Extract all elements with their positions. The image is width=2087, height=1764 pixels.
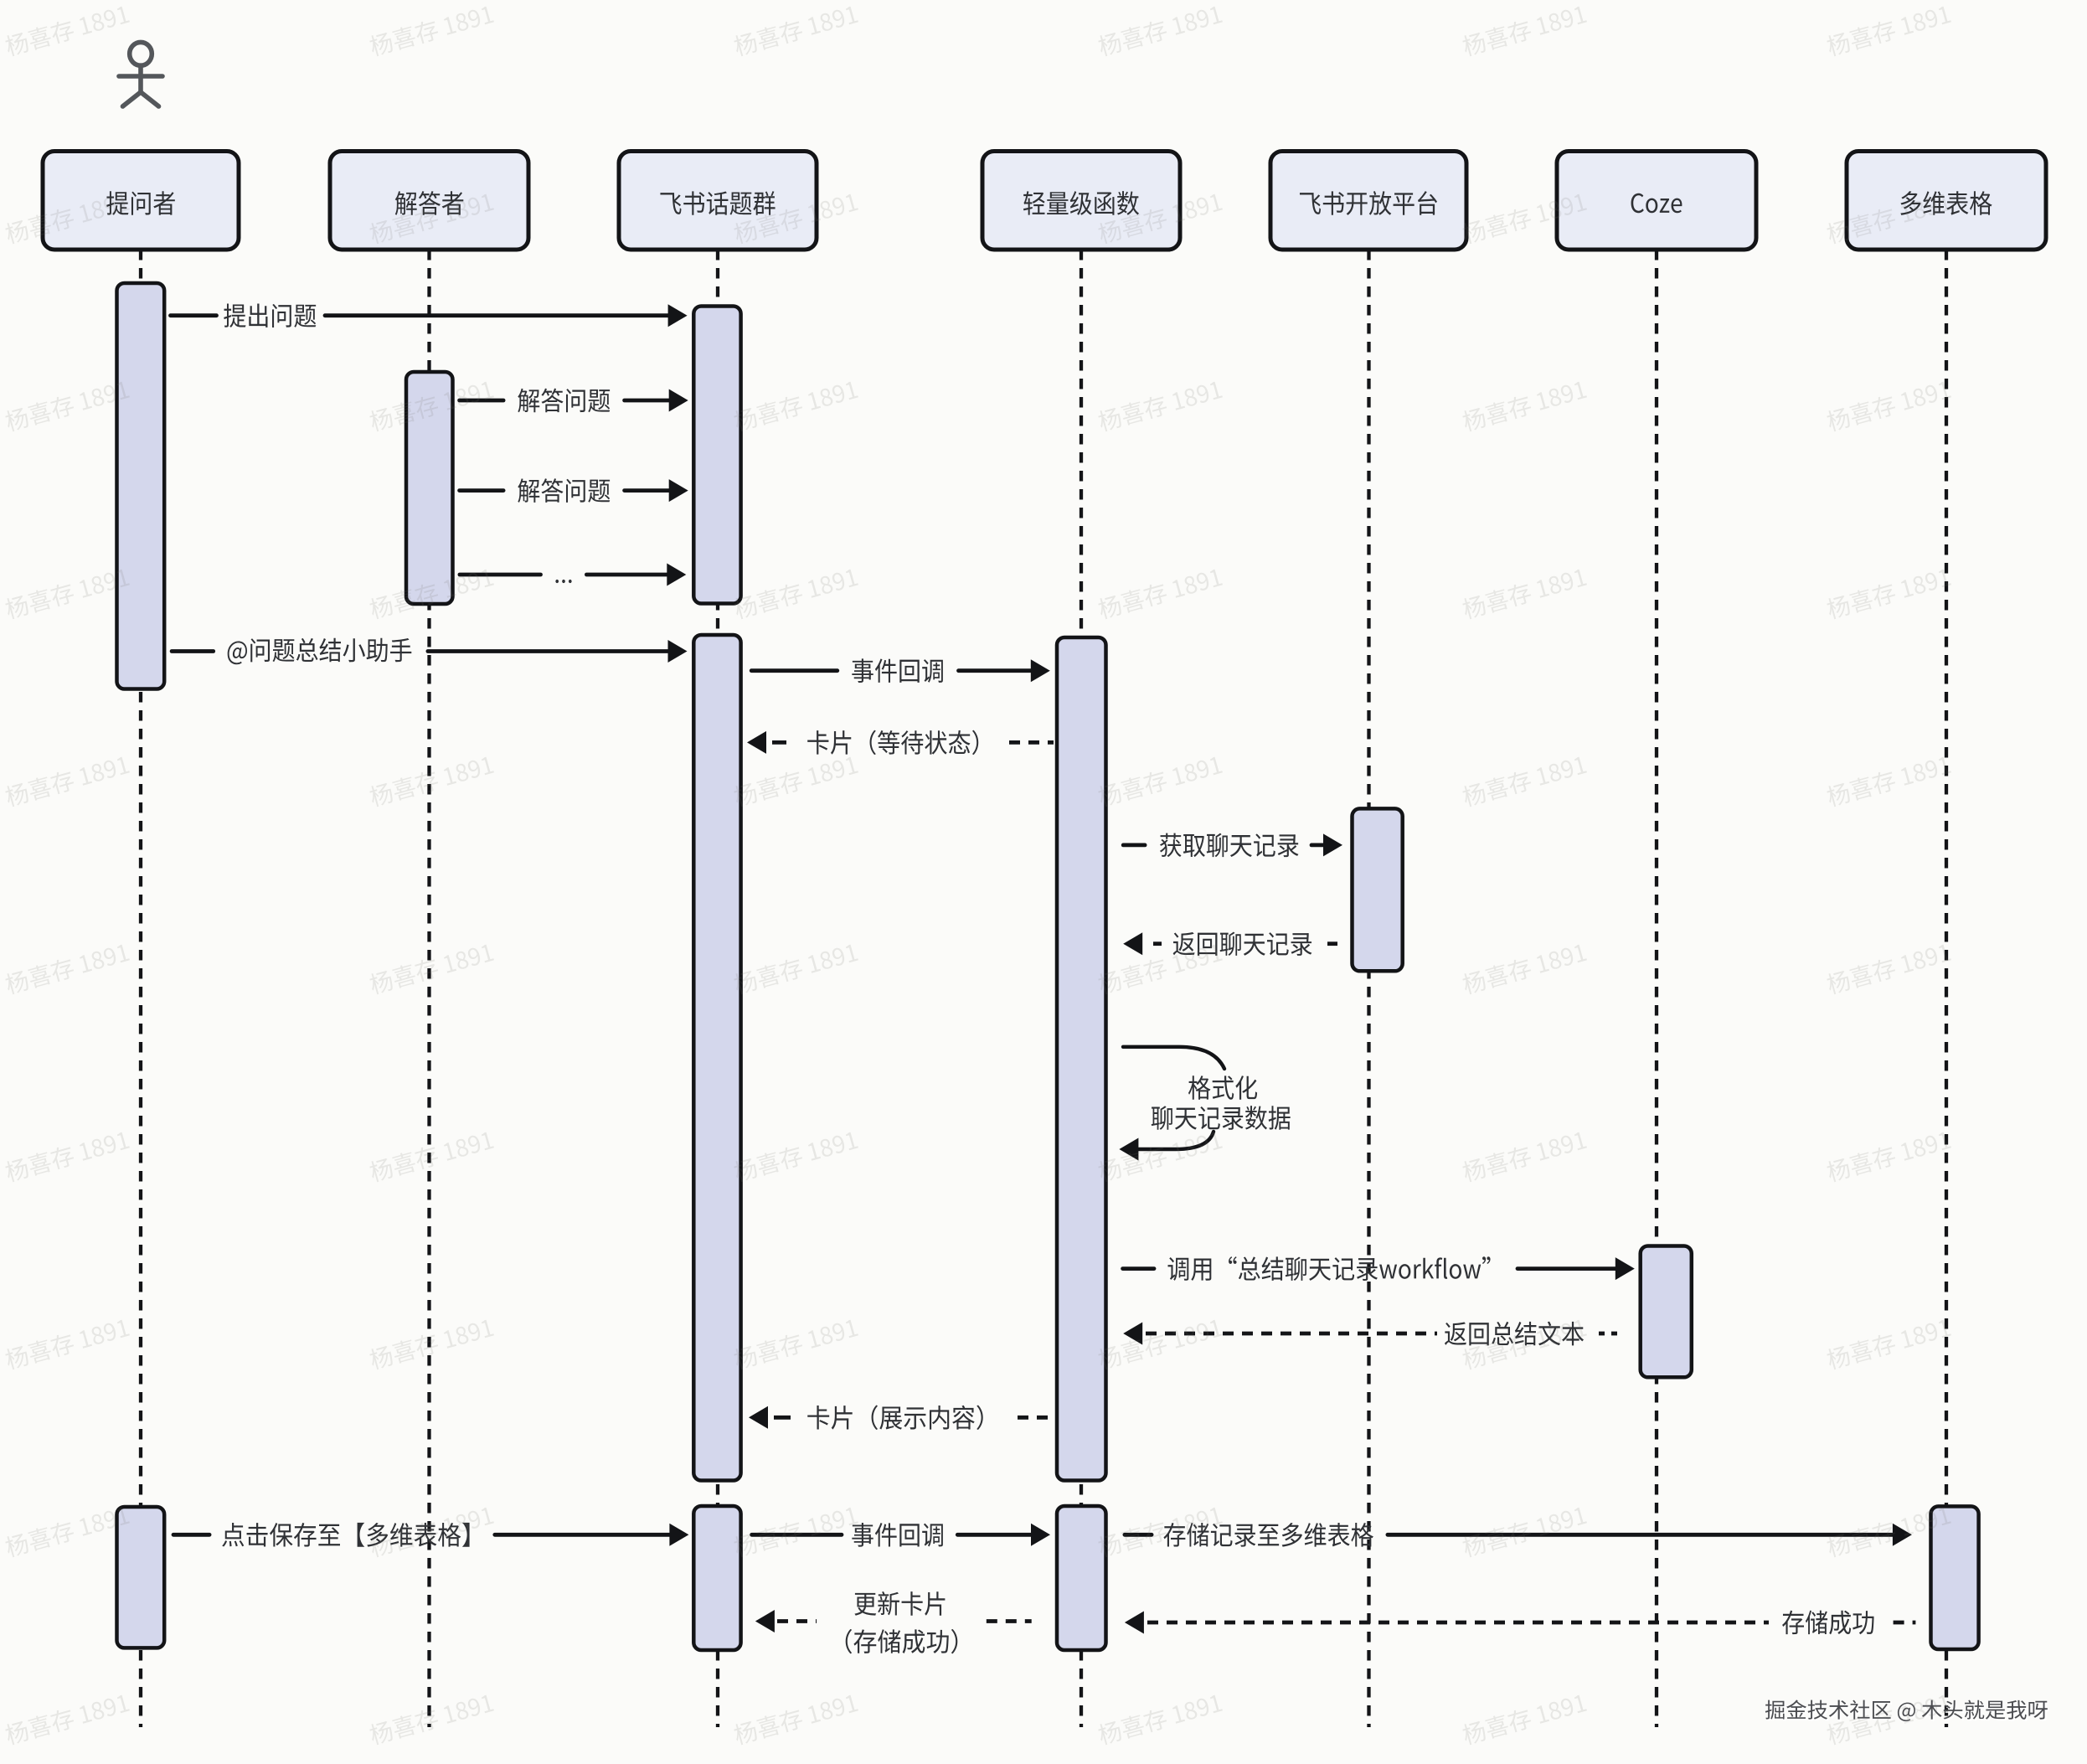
activation bar Coze #1: [1641, 1246, 1692, 1378]
participant box 解答者: [330, 152, 528, 250]
activation bar 飞书开放平台 #1: [1353, 808, 1403, 971]
activation bar 飞书话题群 #3: [693, 1506, 740, 1650]
activation bar 轻量级函数 #1: [1057, 637, 1106, 1481]
self message 格式化聊天记录数据 (轻量级函数): [1123, 1047, 1224, 1069]
activation bar 飞书话题群 #1: [693, 307, 740, 604]
message 事件回调 #1 (飞书话题群 -> 轻量级函数): [751, 668, 837, 673]
message 解答问题 #2 (解答者 -> 飞书话题群): [460, 488, 504, 493]
activation bar 提问者 #2: [117, 1507, 165, 1648]
participant box 提问者: [43, 152, 239, 250]
participant box 飞书开放平台: [1270, 152, 1466, 250]
message 存储记录至多维表格 (轻量级函数 -> 多维表格): [1125, 1533, 1152, 1537]
participant box 轻量级函数: [982, 152, 1180, 250]
message @问题总结小助手 (提问者 -> 飞书话题群): [172, 649, 214, 653]
activation bar 多维表格 #1: [1931, 1506, 1979, 1649]
lifeline 多维表格: [1945, 250, 1948, 1727]
message 返回聊天记录 return (飞书开放平台 -> 轻量级函数): [1123, 932, 1142, 955]
lifeline 解答者: [427, 250, 430, 1727]
lifeline 飞书开放平台: [1367, 250, 1370, 1727]
participant box 多维表格: [1847, 152, 2046, 250]
message 点击保存至【多维表格】 (提问者 -> 飞书话题群): [173, 1533, 209, 1537]
activation bar 轻量级函数 #2: [1057, 1506, 1106, 1650]
message 更新卡片（存储成功） return (轻量级函数 -> 飞书话题群): [755, 1610, 775, 1632]
actor (stick figure): [119, 42, 162, 106]
message 获取聊天记录 (轻量级函数 -> 飞书开放平台): [1123, 843, 1145, 848]
message 卡片（等待状态） return (轻量级函数 -> 飞书话题群): [747, 731, 766, 754]
attribution 掘金技术社区 @ 木头就是我呀: [1767, 1701, 2049, 1723]
participant box 飞书话题群: [619, 152, 817, 250]
participant box Coze: [1557, 152, 1756, 250]
lifeline 飞书话题群: [716, 250, 719, 1727]
lifeline 轻量级函数: [1080, 250, 1083, 1727]
lifeline 提问者: [139, 250, 142, 1727]
activation bar 解答者 #1: [406, 372, 453, 604]
message 返回总结文本 return (Coze -> 轻量级函数): [1123, 1323, 1142, 1345]
message ... (解答者 -> 飞书话题群): [460, 573, 541, 577]
message 解答问题 #1 (解答者 -> 飞书话题群): [460, 399, 504, 403]
message 存储成功 return (多维表格 -> 轻量级函数): [1125, 1612, 1144, 1634]
activation bar 飞书话题群 #2: [693, 635, 740, 1481]
message 提出问题 (提问者 -> 飞书话题群): [171, 313, 217, 317]
activation bar 提问者 #1: [117, 283, 165, 689]
message 卡片（展示内容） return (轻量级函数 -> 飞书话题群): [749, 1406, 768, 1429]
message 调用“总结聊天记录workflow” (轻量级函数 -> Coze): [1123, 1266, 1154, 1271]
message 事件回调 #2 (飞书话题群 -> 轻量级函数): [752, 1533, 842, 1537]
lifeline Coze: [1655, 250, 1658, 1727]
